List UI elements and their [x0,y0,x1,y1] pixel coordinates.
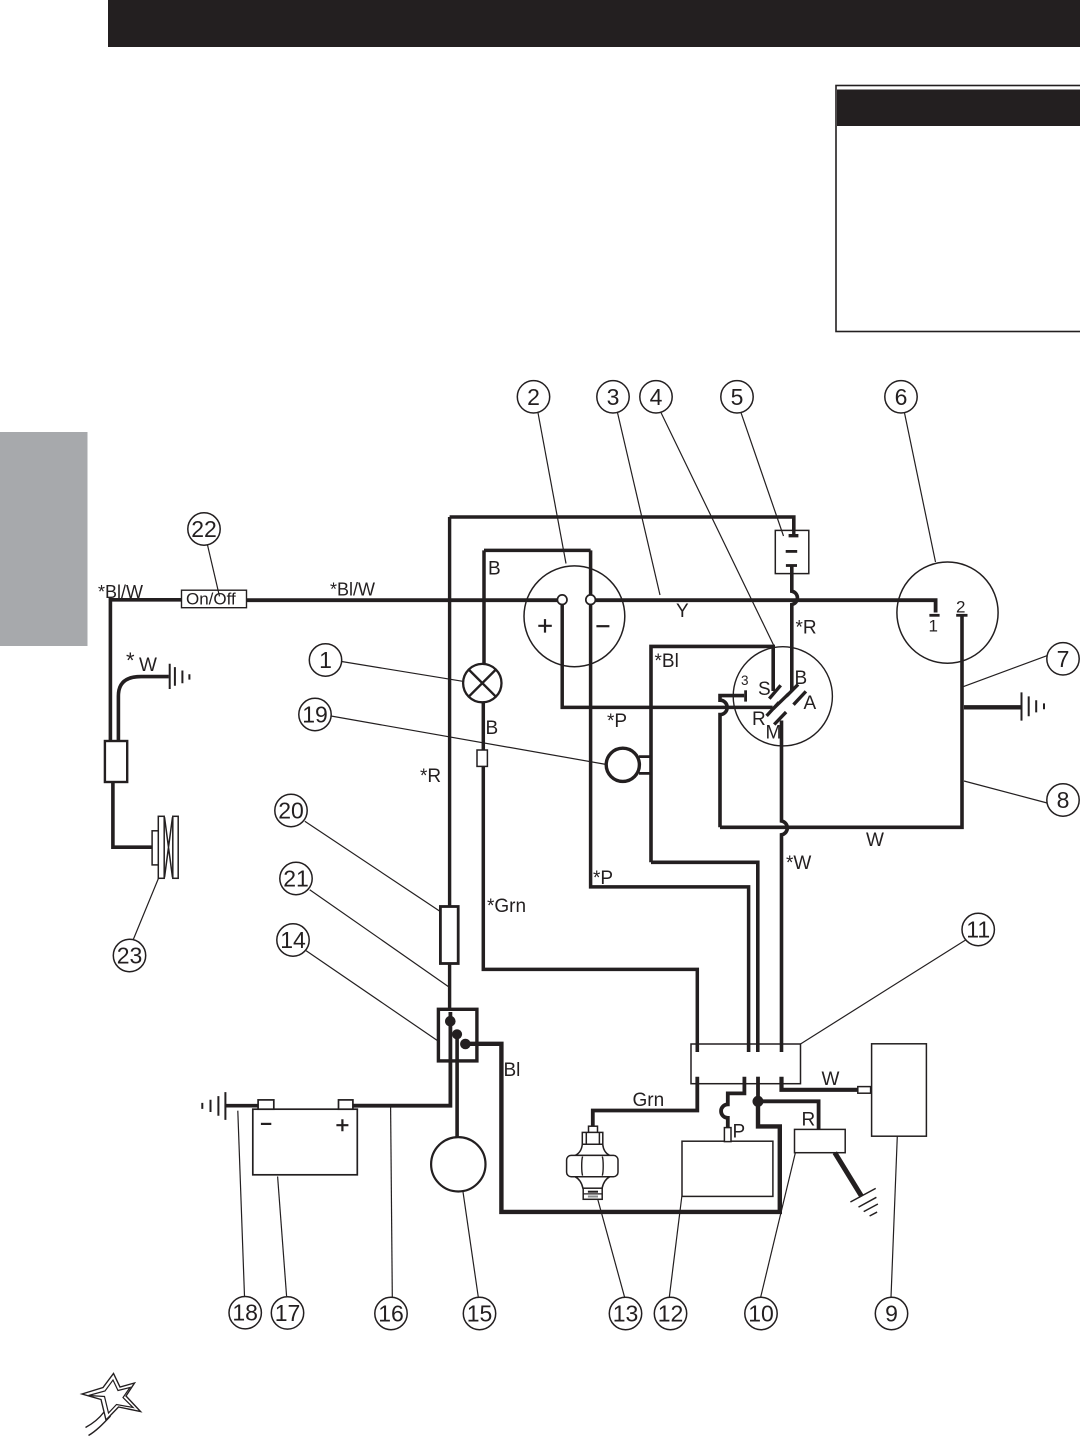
wire *Grn from fuse 19 down, right, down to connector [483,766,697,1052]
svg-text:*P: *P [607,711,627,732]
battery box 17 [253,1109,357,1175]
callout circle 20 [275,794,307,826]
leader line 7 [964,656,1048,687]
callout circle 10 [745,1297,777,1329]
leader line 17 [278,1177,287,1297]
on/off switch box 22 [182,590,247,608]
switch contact slash B [786,684,798,696]
svg-text:Grn: Grn [633,1090,665,1111]
leader line 1 [342,662,463,682]
leader line 6 [905,413,936,562]
wire B horizontal above ammeter [484,549,591,553]
leader line 4 [661,413,775,648]
svg-text:14: 14 [280,927,306,953]
callout circle 11 [962,913,994,945]
wire B drop to warning lamp [482,550,486,664]
svg-text:W: W [139,655,157,676]
component box 9 [872,1044,927,1136]
callout circle 3 [597,381,629,413]
resistor box R 10 [795,1129,846,1152]
switch contact slash R [767,702,779,716]
oil pressure sender 13 [567,1126,618,1199]
callout circle 17 [271,1297,303,1329]
callouts [133,413,1047,1298]
callout circle 19 [299,698,331,730]
callout circle 22 [188,513,220,545]
warning lamp X [469,670,495,696]
generator terminal 2 tick [956,614,967,617]
leader line 11 [801,940,967,1044]
svg-text:2: 2 [956,598,965,617]
battery + sign [336,1119,348,1131]
svg-text:3: 3 [607,384,620,410]
svg-text:*Bl: *Bl [655,651,679,672]
callout circle 23 [113,939,145,971]
inline fuse 19 on B wire [477,750,487,766]
wire *Bl box: top run to switch S terminal [651,646,773,862]
svg-text:5: 5 [731,384,744,410]
svg-text:B: B [486,718,499,739]
leader line 16 [391,1107,393,1298]
svg-text:19: 19 [302,702,328,728]
leader line 12 [669,1197,682,1298]
svg-text:20: 20 [278,798,304,824]
ignition switch circle 4 [733,647,832,746]
ground symbol upper-left [170,664,190,689]
callout circle 8 [1047,784,1079,816]
svg-text:12: 12 [658,1301,684,1327]
wire from ammeter + terminal down then right (*P to switch R contact) [562,600,772,707]
coil resistor bottom terminal bar [786,564,797,567]
fuse 20/21 white rectangle on *R wire [440,907,458,964]
wire M (*W) from switch with hop over W wire, down to connector [782,721,788,1053]
svg-text:*P: *P [593,868,613,889]
ammeter + terminal circle [557,595,567,605]
connector block 11 [691,1044,801,1084]
svg-text:9: 9 [885,1301,898,1327]
regulator box 12 [682,1141,773,1196]
legend box black title bar [837,90,1080,127]
connector stub to junction dot [756,1077,760,1101]
svg-text:8: 8 [1057,787,1070,813]
svg-text:2: 2 [527,384,540,410]
svg-text:M: M [766,723,782,744]
svg-text:A: A [804,693,817,714]
svg-text:3: 3 [741,673,749,688]
wire through fuse holder to battery + [352,1012,450,1106]
leader line 22 [208,545,220,596]
callout circle 16 [375,1297,407,1329]
wire junction to R resistor [758,1101,819,1129]
svg-text:17: 17 [275,1300,301,1326]
svg-text:On/Off: On/Off [186,590,236,609]
wire ground branch from generator leg [964,705,1021,709]
svg-text:R: R [752,709,766,730]
svg-text:*W: *W [786,853,811,874]
wire Grn from connector to oil sender [593,1077,698,1127]
leader line 9 [891,1136,897,1297]
switch contact slash A [794,691,806,704]
svg-text:*Grn: *Grn [487,896,526,917]
ammeter - sign [596,625,609,627]
callout circle 15 [463,1297,495,1329]
wire fuse holder to starter [455,1034,459,1137]
svg-text:Y: Y [676,601,689,622]
svg-text:B: B [795,668,808,689]
svg-text:1: 1 [319,647,332,673]
connector stub *P top [747,1044,751,1052]
svg-text:*Bl/W: *Bl/W [330,580,375,600]
leader line 15 [463,1192,478,1297]
svg-text:Bl: Bl [504,1060,521,1081]
fuse holder terminal dot 1 [445,1016,456,1027]
svg-text:11: 11 [966,917,990,943]
wire *R top horizontal to ignition coil resistor [450,517,794,531]
svg-text:16: 16 [378,1301,404,1327]
leader line 8 [964,781,1047,803]
leader line 14 [306,951,440,1042]
wire P from connector with curl to regulator P terminal [721,1077,744,1128]
connector stub *Grn top [695,1044,699,1052]
callout circle 1 [309,644,341,676]
callout circle 9 [875,1297,907,1329]
star logo bottom-left [82,1374,141,1436]
ground symbol right (generator) [1022,692,1045,720]
W terminal nub on box 9 [858,1087,871,1094]
coil resistor top terminal bar [789,531,799,536]
svg-text:*: * [126,648,135,673]
callout circle 2 [517,381,549,413]
junction dot [753,1096,764,1107]
P terminal white post on regulator [724,1128,731,1142]
svg-text:4: 4 [650,384,663,410]
warning lamp circle 1 [463,664,501,702]
wire *Bl/W from on/off switch (horizontal + drop to coil block) [110,600,181,741]
ammeter circle 2 [524,566,625,667]
leader line 13 [598,1200,625,1298]
coil resistor box 5 [775,530,809,573]
svg-text:W: W [822,1069,840,1090]
wire terminal-3 leg with hop over *P wire [720,696,744,828]
left gray sidebar block [0,432,88,646]
svg-text:W: W [866,830,884,851]
ground hatch symbol lower right [850,1188,878,1216]
fuse holder terminal dot 3 [460,1039,471,1050]
wire ground to battery - terminal [225,1104,262,1108]
wire *Bl lower run to connector [651,862,758,1052]
coil resistor middle bar [786,550,798,553]
battery + terminal post [339,1100,353,1109]
wire W from connector to voltage regulator 9 [782,1077,858,1090]
wire below lamp (B to fuse 19) [482,702,486,750]
leader line 23 [133,878,159,940]
fuse holder box 14 [438,1009,477,1061]
wire Y main horizontal (ammeter - terminal to generator terminal 1) [595,600,935,612]
leader line 20 [305,821,441,912]
callout circle 12 [654,1297,686,1329]
svg-text:23: 23 [117,943,143,969]
ground symbol left (battery) [202,1092,225,1120]
kill switch block upper-left [105,741,127,782]
svg-text:6: 6 [895,384,908,410]
wire Y main horizontal (on/off to ammeter + terminal) [247,598,558,602]
svg-text:P: P [733,1122,746,1143]
top header black bar [108,0,1080,47]
wire from kill block down to pulley [113,782,152,847]
leader line 3 [618,413,661,595]
svg-text:R: R [802,1110,816,1131]
wire from ammeter - terminal down (*P drop to connector) [591,550,749,1052]
top-right legend box [836,86,1080,332]
fuse holder terminal dot 2 [452,1029,462,1039]
callout circle 7 [1047,643,1079,675]
svg-text:22: 22 [191,516,217,542]
leader line 2 [538,413,566,564]
svg-text:*R: *R [420,766,441,787]
ammeter - terminal circle [586,595,596,605]
svg-text:21: 21 [283,866,309,892]
callout circle 6 [885,381,917,413]
wire W from generator terminal 2 down and left [720,617,962,828]
switch contact slash S [769,685,780,698]
wire *R from coil resistor down with hop over Y, to switch B contact [792,566,798,691]
fuel sender 19 connection stubs [639,757,652,774]
wire *R vertical (fuse 20 to fuse holder 14) [448,963,451,1009]
leader line 18 [238,1111,245,1297]
wire *R vertical (upper segment to fuse 20) [448,517,451,907]
svg-text:15: 15 [467,1301,493,1327]
battery - sign [261,1123,271,1125]
wire *W to ground upper-left [118,677,168,741]
callout circle 4 [640,381,672,413]
thick ground lead from resistor 10 [835,1153,862,1197]
switch contact slash M [774,712,786,724]
fuel sender circle 19 [606,748,639,781]
generator terminal 1 tick [929,614,939,617]
wire Bl from fuse holder right then down and along bottom [465,1044,779,1212]
svg-text:13: 13 [613,1301,639,1327]
battery - terminal post [258,1100,274,1109]
starter motor circle 15 [431,1137,485,1191]
svg-text:1: 1 [929,617,938,636]
callout circle 5 [721,381,753,413]
callout circle 14 [277,924,309,956]
leader line 21 [310,890,450,988]
connector stub *Bl top [756,1044,760,1052]
svg-text:S: S [758,679,771,700]
crankshaft pulley 23 [152,816,178,878]
ammeter + sign [538,619,552,633]
callout circle 21 [280,862,312,894]
svg-text:10: 10 [748,1301,774,1327]
svg-text:B: B [488,559,501,580]
svg-text:*Bl/W: *Bl/W [98,582,143,602]
leader line 19 [331,716,607,765]
ignition switch terminal 3 tick [744,690,747,701]
leader line 5 [741,413,784,536]
svg-text:*R: *R [796,618,817,639]
callout circle 13 [609,1297,641,1329]
callout circle 18 [229,1297,261,1329]
generator circle 6 [897,562,998,663]
leader line 10 [761,1153,796,1297]
svg-text:7: 7 [1057,646,1070,672]
connector stub *W top [780,1044,784,1052]
svg-text:18: 18 [232,1300,258,1326]
switch rotor slash center [773,694,788,709]
